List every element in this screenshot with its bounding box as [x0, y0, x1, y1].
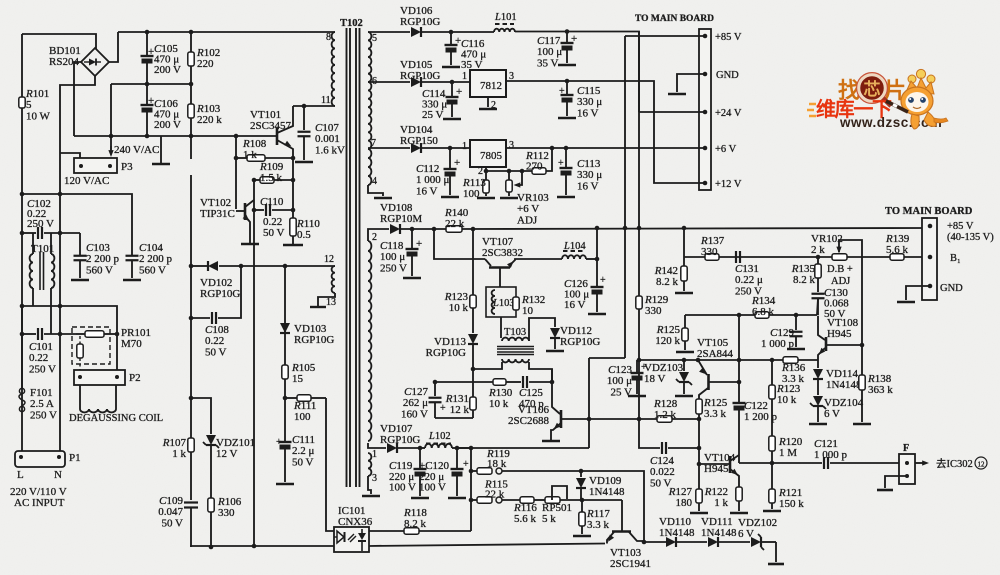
svg-text:50 V: 50 V	[162, 517, 184, 529]
wire	[730, 469, 739, 487]
svg-text:M70: M70	[121, 338, 142, 350]
chain VD103	[283, 264, 288, 269]
resistor R121	[771, 463, 773, 489]
capacitor C123	[636, 360, 638, 372]
wire	[60, 76, 95, 451]
svg-text:0.047: 0.047	[158, 506, 183, 518]
svg-text:50 V: 50 V	[263, 227, 285, 239]
svg-text:RGP10G: RGP10G	[400, 16, 440, 28]
svg-text:R116: R116	[513, 502, 537, 514]
svg-text:+: +	[454, 157, 460, 169]
svg-text:100 μ: 100 μ	[607, 375, 632, 387]
capacitor C116	[449, 30, 454, 35]
fuse F101	[21, 306, 23, 388]
svg-text:L103: L103	[492, 298, 515, 309]
svg-text:2: 2	[372, 232, 377, 243]
svg-text:R140: R140	[444, 207, 469, 219]
stub with bar near P3	[160, 136, 162, 164]
svg-text:5: 5	[26, 99, 32, 111]
svg-text:R102: R102	[196, 47, 220, 59]
svg-text:C129: C129	[770, 327, 794, 339]
wire	[709, 381, 739, 383]
svg-text:VD102: VD102	[200, 277, 232, 289]
svg-text:VD106: VD106	[400, 5, 433, 17]
wire	[639, 360, 660, 448]
svg-text:F: F	[903, 443, 909, 454]
svg-text:D.B +: D.B +	[827, 264, 853, 275]
svg-text:VD111: VD111	[701, 516, 733, 528]
svg-text:VD105: VD105	[400, 59, 433, 71]
svg-text:16 V: 16 V	[564, 299, 586, 311]
capacitor C121	[823, 457, 825, 469]
wire bottom rail mid	[369, 544, 605, 547]
svg-text:C124: C124	[650, 455, 674, 467]
svg-text:C122: C122	[744, 400, 768, 412]
svg-text:560 V: 560 V	[139, 264, 166, 276]
wire	[730, 455, 739, 461]
svg-text:330 μ: 330 μ	[577, 96, 602, 108]
svg-text:R136: R136	[781, 362, 806, 374]
svg-text:1: 1	[462, 71, 467, 82]
svg-text:100 V: 100 V	[389, 482, 416, 494]
svg-text:C103: C103	[86, 242, 110, 254]
svg-text:+85 V: +85 V	[715, 32, 742, 43]
svg-text:50 V: 50 V	[205, 346, 227, 358]
svg-text:10 k: 10 k	[449, 302, 469, 314]
wire	[368, 229, 389, 241]
wire L104 to rail	[596, 228, 598, 259]
capacitor C109	[184, 501, 198, 503]
svg-text:TO MAIN BOARD: TO MAIN BOARD	[635, 14, 714, 24]
svg-text:RGP150: RGP150	[400, 135, 438, 147]
resistor R135	[817, 257, 819, 264]
wire	[506, 81, 705, 183]
T102 secondary winding 2-1	[368, 241, 371, 441]
svg-text:VD109: VD109	[589, 475, 622, 487]
wire	[50, 288, 52, 334]
diode VD113	[468, 334, 478, 344]
svg-text:F101: F101	[30, 387, 53, 399]
svg-text:VT102: VT102	[200, 197, 231, 209]
wire	[698, 414, 700, 489]
svg-text:R137: R137	[700, 235, 725, 247]
resistor R137	[705, 254, 719, 260]
svg-text:R113: R113	[462, 177, 486, 189]
svg-text:35 V: 35 V	[537, 57, 559, 69]
wire	[326, 398, 334, 531]
resistor R118	[404, 528, 419, 534]
svg-text:VD112: VD112	[560, 325, 592, 337]
diode VD109	[580, 471, 582, 477]
T102 primary winding 12-13	[332, 266, 335, 293]
resistor R140	[446, 226, 462, 232]
svg-text:C112: C112	[416, 163, 439, 175]
resistor R125 3.3k	[696, 399, 702, 414]
svg-text:GND: GND	[940, 283, 963, 294]
svg-text:0.22: 0.22	[263, 216, 282, 228]
svg-text:+: +	[416, 238, 422, 250]
svg-text:C113: C113	[577, 158, 601, 170]
svg-text:1.2 k: 1.2 k	[654, 409, 677, 421]
svg-text:100 V: 100 V	[419, 482, 446, 494]
wire	[22, 306, 117, 370]
diode VD106	[368, 31, 410, 33]
svg-text:+: +	[600, 275, 606, 286]
svg-text:C107: C107	[315, 122, 339, 134]
diode VD102	[191, 265, 207, 267]
svg-text:R101: R101	[25, 88, 49, 100]
wire L103 to T103	[500, 317, 502, 338]
transistor VT102	[244, 203, 247, 220]
transistor VT108	[825, 337, 828, 351]
wire	[502, 471, 644, 540]
svg-text:1N4148: 1N4148	[701, 527, 737, 539]
wire	[368, 443, 386, 448]
resistor R127	[696, 489, 702, 503]
svg-text:+: +	[456, 86, 462, 98]
wire	[74, 62, 81, 136]
wire top rail to transformer	[118, 31, 335, 33]
svg-text:R120: R120	[778, 436, 803, 448]
connector P1	[15, 451, 65, 467]
capacitor C112	[448, 146, 453, 151]
svg-text:C125: C125	[519, 387, 543, 399]
svg-text:C111: C111	[292, 434, 315, 446]
svg-text:R107: R107	[162, 437, 187, 449]
wire C101 row y334	[22, 333, 36, 335]
svg-text:RGP10G: RGP10G	[380, 434, 420, 446]
svg-text:560 V: 560 V	[86, 264, 113, 276]
svg-text:R132: R132	[521, 294, 545, 306]
wire VT102 base drop	[235, 136, 237, 209]
inductor L102	[420, 447, 425, 449]
svg-text:R123: R123	[776, 383, 801, 395]
capacitor C117	[566, 32, 568, 42]
wire	[699, 388, 708, 399]
svg-text:1N4148: 1N4148	[589, 486, 625, 498]
svg-text:C101: C101	[29, 341, 53, 353]
svg-text:+: +	[571, 33, 577, 45]
svg-text:RGP10G: RGP10G	[426, 347, 466, 359]
resistor R123 10k lower	[771, 360, 773, 385]
wire pin11 to VT101	[293, 105, 335, 107]
T102 secondary winding 1-3	[368, 453, 371, 476]
svg-text:12 V: 12 V	[216, 448, 238, 460]
svg-text:10 k: 10 k	[489, 398, 509, 410]
wire	[368, 476, 371, 494]
connector P3	[74, 158, 117, 173]
svg-text:+: +	[463, 459, 469, 470]
wire x191 lower	[190, 136, 192, 159]
svg-text:150 k: 150 k	[779, 498, 804, 510]
wire	[552, 486, 567, 500]
svg-text:L101: L101	[494, 12, 517, 23]
potentiometer RP501	[545, 497, 560, 503]
wire	[22, 194, 132, 255]
transistor VT104	[699, 463, 730, 465]
capacitor C114	[450, 80, 455, 85]
svg-text:R117: R117	[586, 508, 610, 520]
capacitor C118	[410, 227, 415, 232]
wire C127/R131 bottom loop	[435, 417, 473, 419]
svg-text:R118: R118	[403, 507, 427, 519]
svg-text:R138: R138	[867, 373, 892, 385]
svg-text:12: 12	[978, 461, 986, 469]
resistor R134	[755, 312, 769, 318]
wire +85 rail	[462, 228, 930, 229]
svg-text:1 000 μ: 1 000 μ	[416, 174, 450, 186]
zener VDZ102	[751, 537, 761, 547]
svg-text:BD101: BD101	[49, 45, 81, 57]
svg-text:VDZ104: VDZ104	[824, 397, 864, 409]
diode VD110	[644, 541, 667, 543]
svg-text:R139: R139	[885, 233, 910, 245]
svg-text:50 V: 50 V	[292, 456, 314, 468]
svg-text:VD110: VD110	[659, 516, 691, 528]
wire VT103 collector node	[642, 540, 647, 545]
degaussing coil	[79, 385, 81, 409]
svg-text:C121: C121	[814, 438, 838, 450]
svg-text:1.6 kV: 1.6 kV	[315, 144, 345, 156]
resistor R122	[736, 487, 742, 501]
svg-text:240 V/AC: 240 V/AC	[114, 144, 159, 156]
svg-text:1 M: 1 M	[779, 447, 797, 459]
svg-text:RGP10G: RGP10G	[560, 336, 600, 348]
svg-text:4: 4	[372, 176, 377, 187]
svg-text:VT104: VT104	[704, 452, 736, 464]
capacitor C102	[37, 227, 39, 239]
svg-text:8.2 k: 8.2 k	[656, 276, 679, 288]
svg-text:270: 270	[526, 161, 543, 173]
svg-text:200 V: 200 V	[154, 64, 181, 76]
wire R130 row	[435, 381, 493, 383]
svg-text:R135: R135	[791, 263, 816, 275]
svg-text:VD107: VD107	[380, 423, 413, 435]
inductor L101	[446, 31, 494, 33]
wire	[906, 286, 930, 300]
svg-text:2SC3457: 2SC3457	[250, 120, 291, 132]
svg-text:R121: R121	[778, 487, 802, 499]
svg-text:C109: C109	[159, 495, 183, 507]
bridge rectifier BD101	[81, 48, 109, 76]
wire	[32, 288, 34, 306]
svg-text:VD114: VD114	[826, 368, 858, 380]
svg-text:去IC302: 去IC302	[936, 458, 973, 470]
svg-text:1: 1	[372, 449, 377, 460]
wire R142 top link	[683, 228, 685, 257]
svg-text:1 k: 1 k	[714, 497, 728, 509]
svg-text:R109: R109	[259, 161, 284, 173]
wire +24 rail vertical x625	[624, 36, 626, 358]
svg-text:VT107: VT107	[482, 236, 514, 248]
svg-text:250 V: 250 V	[735, 285, 762, 297]
svg-text:250 V: 250 V	[30, 409, 57, 421]
capacitor C130	[812, 293, 825, 295]
svg-text:芯: 芯	[864, 79, 881, 99]
svg-text:RGP10G: RGP10G	[294, 334, 334, 346]
svg-text:8: 8	[326, 32, 331, 43]
T102 secondary winding 5-6-7-4	[368, 32, 371, 82]
svg-text:180: 180	[676, 497, 693, 509]
svg-text:2: 2	[478, 166, 483, 177]
svg-text:VDZ101: VDZ101	[216, 437, 255, 449]
resistor R112	[532, 168, 546, 174]
resistor R119	[471, 470, 477, 472]
resistor R115	[471, 499, 477, 501]
node y84 junctions	[145, 82, 150, 87]
svg-text:P3: P3	[121, 161, 133, 173]
capacitor C111	[284, 398, 286, 441]
wire	[60, 153, 80, 158]
wire	[625, 35, 705, 37]
capacitor C101	[37, 328, 39, 340]
svg-text:7812: 7812	[480, 80, 502, 92]
capacitor C120	[456, 448, 458, 468]
wire	[515, 32, 639, 113]
connector 1 to main board	[699, 29, 711, 190]
svg-text:+: +	[558, 158, 564, 169]
svg-text:250 V: 250 V	[27, 218, 54, 230]
svg-text:262 μ: 262 μ	[403, 397, 428, 409]
resistor R101	[19, 97, 25, 108]
svg-text:10 k: 10 k	[777, 394, 797, 406]
wire	[621, 500, 623, 531]
svg-text:C127: C127	[404, 386, 428, 398]
wire	[509, 259, 562, 266]
wire feedback vertical x254	[253, 180, 255, 546]
resistor R105	[284, 334, 286, 365]
svg-text:R106: R106	[217, 496, 242, 508]
svg-text:PR101: PR101	[121, 327, 151, 339]
potentiometer VR103	[508, 171, 510, 180]
zener VDZ101	[206, 435, 216, 445]
svg-text:120 V/AC: 120 V/AC	[64, 175, 109, 187]
transistor VT105	[707, 374, 710, 390]
svg-text:3.3 k: 3.3 k	[587, 519, 610, 531]
wire x471 drop	[470, 448, 472, 531]
wire	[529, 318, 555, 341]
svg-text:5 k: 5 k	[542, 513, 556, 525]
svg-text:C104: C104	[139, 242, 163, 254]
svg-text:100 μ: 100 μ	[537, 46, 562, 58]
svg-text:0.22: 0.22	[205, 335, 224, 347]
capacitor C105	[146, 32, 148, 55]
svg-text:1.5 k: 1.5 k	[260, 172, 283, 184]
wire	[677, 74, 705, 92]
potentiometer VR102	[832, 254, 847, 260]
wire	[818, 348, 825, 360]
capacitor C119	[418, 446, 423, 451]
regulator U 7812	[470, 70, 506, 97]
wire	[546, 148, 552, 171]
svg-text:+: +	[440, 403, 446, 414]
svg-text:16 V: 16 V	[577, 180, 599, 192]
resistor R116	[520, 497, 534, 503]
resistor R111	[285, 397, 297, 399]
svg-text:VDZ103: VDZ103	[644, 362, 684, 374]
wire left vertical L line	[21, 34, 23, 451]
wire	[629, 532, 644, 541]
capacitor C129	[795, 315, 797, 330]
resistor R108	[236, 157, 247, 159]
svg-text:VDZ102: VDZ102	[738, 517, 777, 529]
resistor R128	[657, 416, 672, 422]
svg-text:+: +	[559, 86, 565, 97]
wire	[485, 259, 491, 266]
svg-text:VT101: VT101	[250, 109, 281, 121]
svg-text:1N4148: 1N4148	[659, 527, 695, 539]
capacitor C126	[596, 259, 598, 286]
wire 7805 pin3 +6V rail	[506, 147, 705, 149]
resistor R117	[581, 500, 583, 512]
wire	[22, 34, 96, 49]
svg-text:VD113: VD113	[434, 336, 466, 348]
svg-text:0.22: 0.22	[29, 352, 48, 364]
capacitor C125	[522, 376, 524, 388]
svg-text:1 k: 1 k	[172, 448, 186, 460]
svg-text:+6 V: +6 V	[517, 203, 539, 215]
svg-text:363 k: 363 k	[868, 384, 893, 396]
svg-text:R105: R105	[291, 362, 316, 374]
svg-text:25 V: 25 V	[611, 386, 633, 398]
wire	[191, 317, 210, 319]
svg-text:C110: C110	[260, 196, 284, 208]
wire 240V select vertical	[110, 84, 112, 150]
svg-text:220: 220	[197, 58, 214, 70]
svg-text:R131: R131	[445, 393, 469, 405]
capacitor C106	[146, 84, 148, 104]
diode VD114	[817, 360, 819, 368]
svg-text:8.2 k: 8.2 k	[404, 518, 427, 530]
svg-text:8.2 k: 8.2 k	[793, 274, 816, 286]
svg-text:160 V: 160 V	[401, 408, 428, 420]
wire	[104, 333, 117, 335]
wire	[885, 476, 907, 488]
svg-text:2 200 p: 2 200 p	[139, 253, 173, 265]
wire	[529, 362, 552, 380]
svg-text:+: +	[276, 437, 282, 448]
svg-text:VD104: VD104	[400, 124, 433, 136]
svg-text:H945: H945	[704, 463, 729, 475]
svg-text:1 000 p: 1 000 p	[761, 338, 795, 350]
svg-text:2 k: 2 k	[811, 244, 825, 256]
svg-text:TIP31C: TIP31C	[200, 208, 235, 220]
wire	[368, 185, 383, 196]
resistor R125 120k	[684, 315, 686, 328]
svg-text:1 k: 1 k	[243, 149, 257, 161]
svg-text:IC101: IC101	[338, 505, 366, 517]
svg-text:100: 100	[463, 188, 480, 200]
svg-text:250 V: 250 V	[29, 363, 56, 375]
svg-text:7805: 7805	[480, 150, 503, 162]
resistor R139	[890, 254, 904, 260]
wire	[218, 266, 241, 318]
svg-text:T102: T102	[340, 18, 363, 29]
capacitor C127	[434, 382, 436, 396]
wire	[277, 106, 293, 133]
resistor R107	[188, 438, 194, 452]
capacitor C107	[303, 106, 305, 130]
wire	[698, 360, 707, 375]
resistor R109	[254, 179, 260, 181]
connector P2	[74, 370, 125, 385]
svg-text:VT105: VT105	[697, 337, 729, 349]
capacitor C113	[565, 148, 567, 167]
wire x589 to L102 node	[457, 447, 589, 449]
svg-text:AC INPUT: AC INPUT	[14, 497, 65, 509]
diode VD105	[368, 81, 410, 83]
svg-text:330: 330	[701, 246, 718, 258]
